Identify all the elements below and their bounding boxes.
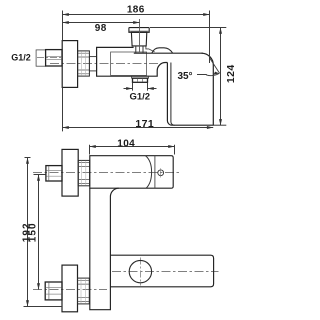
svg-text:98: 98 xyxy=(95,23,107,34)
small step between diverter and handle xyxy=(146,46,155,52)
centerline (faucet axis) xyxy=(50,63,162,65)
dimension 124 xyxy=(150,27,226,29)
svg-text:104: 104 xyxy=(117,138,135,149)
screw circle on end cap xyxy=(158,170,164,176)
dimension 192 xyxy=(24,158,63,307)
body bar (upper horizontal) xyxy=(90,156,173,189)
lower G1/2 nut xyxy=(45,282,62,300)
diverter stem xyxy=(136,46,143,53)
diverter knob cap xyxy=(129,28,149,33)
tailpiece xyxy=(89,57,96,71)
svg-text:171: 171 xyxy=(135,118,154,130)
centerline upper connection xyxy=(33,172,182,174)
handle lever hump xyxy=(152,48,173,53)
spout bar (lower horizontal) xyxy=(110,255,213,287)
vertical column body xyxy=(90,188,119,310)
downspout inner edge line xyxy=(171,63,175,126)
valve body outline xyxy=(97,47,168,76)
svg-text:G1/2: G1/2 xyxy=(11,53,31,63)
G1/2 label (bottom outlet) with dimension xyxy=(133,83,148,91)
lower flange xyxy=(62,265,78,312)
lower ribbed union xyxy=(78,278,90,304)
bottom outlet G1/2 nut xyxy=(133,78,148,82)
svg-text:35°: 35° xyxy=(177,71,192,82)
handle dome arc xyxy=(146,156,152,188)
centerline spout axis xyxy=(112,271,219,273)
G1/2 union nut N1 xyxy=(46,50,62,66)
diverter knob body xyxy=(131,32,146,46)
diverter knob circle (plan) xyxy=(129,260,151,282)
wall flange (escutcheon) xyxy=(62,41,77,88)
dimension 171 xyxy=(62,87,64,131)
svg-text:124: 124 xyxy=(225,64,237,83)
dimension 150 xyxy=(34,174,46,176)
svg-text:G1/2: G1/2 xyxy=(129,92,150,103)
svg-text:150: 150 xyxy=(27,222,38,242)
upper flange xyxy=(62,149,78,196)
dimension 98 xyxy=(139,19,141,52)
spout arm top line xyxy=(134,52,203,54)
ribbed union cover xyxy=(78,51,90,76)
svg-text:186: 186 xyxy=(127,5,145,16)
end cap divider line xyxy=(154,156,156,188)
centerline lower connection xyxy=(33,289,107,291)
35 degree angle annotation xyxy=(197,74,207,76)
upper ribbed union xyxy=(78,160,89,185)
vertical centerline through diverter circle xyxy=(140,258,142,286)
body inner cartridge rectangle xyxy=(111,52,147,75)
dimension 104 xyxy=(90,145,175,155)
upper G1/2 nut xyxy=(46,166,62,181)
centerline (wall thread axis, eccentric) xyxy=(37,57,62,59)
dimension 186 xyxy=(62,11,64,41)
spout: rounded corner, right face, bottom tip and downspout left edge xyxy=(167,53,213,125)
bottom outlet shoulder xyxy=(132,76,149,78)
G1/2 thread stub (wall side) xyxy=(36,50,46,66)
